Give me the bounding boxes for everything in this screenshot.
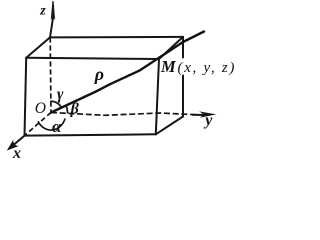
gamma angle arc (z to rho): [50, 101, 61, 107]
svg-text:γ: γ: [57, 86, 64, 103]
box edge bottom-right depth (BBR-FBR): [156, 117, 183, 135]
box edge front-left (FTL-FBL): [25, 58, 27, 136]
svg-text:y: y: [203, 112, 213, 129]
z-axis hidden dashed segment (BTL down to O): [49, 37, 52, 112]
x-axis solid shaft: [11, 136, 25, 148]
box edge front-top (FTL-FTR): [26, 58, 159, 59]
x-axis arrowhead: [7, 140, 19, 151]
z-axis arrowhead: [51, 1, 55, 20]
radius vector rho: O through M corner to upper right: [51, 32, 204, 113]
svg-text:z: z: [39, 4, 46, 19]
svg-text:β: β: [70, 101, 80, 118]
box edge back-right vertical lower (label gap to BBR): [182, 76, 184, 117]
svg-text:ρ: ρ: [94, 64, 104, 84]
y-axis hidden dashed segment (O to right face): [51, 113, 196, 116]
z-axis solid shaft above box: [50, 18, 53, 37]
svg-text:α: α: [52, 117, 62, 136]
y-axis arrowhead: [199, 111, 217, 117]
beta angle arc (rho to y): [66, 105, 68, 114]
svg-text:O: O: [35, 100, 46, 117]
alpha angle arc (x-axis swept below to rho side): [38, 119, 65, 131]
box edge front-right (FTR-FBR): [156, 59, 159, 134]
svg-text:M: M: [160, 57, 177, 76]
box edge top-right depth (BTR-FTR): [159, 37, 183, 59]
svg-text:x: x: [12, 145, 21, 160]
x-axis hidden dashed segment (O to FBL): [25, 113, 52, 136]
box edge top-back (BTL-BTR): [50, 36, 183, 39]
svg-text:(x, y, z): (x, y, z): [178, 60, 236, 76]
box edge front-bottom (FBL-FBR): [25, 134, 156, 135]
box edge top-left depth (FTL-BTL): [26, 37, 50, 57]
box edge back-right vertical upper (BTR to label gap): [182, 37, 184, 58]
y-axis solid shaft: [192, 114, 204, 116]
